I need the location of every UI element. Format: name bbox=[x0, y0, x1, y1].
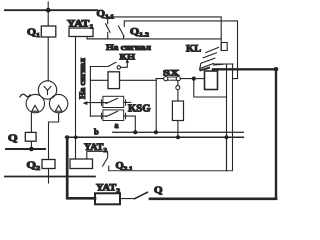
wire feeder above bus bbox=[47, 2, 49, 10]
node on thick line bbox=[274, 67, 279, 72]
arrow to KN label bbox=[126, 59, 130, 63]
KSG upper box bbox=[103, 96, 124, 107]
arrow to signal (left) bbox=[83, 101, 88, 105]
wire right branch down to Q2.1 return bbox=[226, 97, 228, 171]
svg-text:Q: Q bbox=[8, 134, 18, 144]
svg-text:Q2: Q2 bbox=[27, 161, 41, 172]
breaker Q1 bbox=[41, 26, 56, 37]
transformer T (three-winding) bbox=[26, 81, 68, 113]
delta winding symbol left bbox=[32, 105, 39, 111]
KSG upper right stub bbox=[124, 101, 131, 103]
node SX vertical on rail a bbox=[154, 130, 158, 134]
KSG upper contact blade bbox=[106, 98, 118, 103]
svg-text:KSG: KSG bbox=[128, 104, 151, 115]
wire KSG upper contact to signal arrow bbox=[87, 102, 107, 104]
wire thick trip line top bbox=[213, 68, 276, 70]
tilde sign bbox=[20, 94, 30, 97]
wire KL coil loop down-right bbox=[194, 64, 227, 97]
node right branch on rail b bbox=[225, 135, 229, 139]
node YAT1 wire on rail b bbox=[74, 136, 78, 140]
svg-text:Q: Q bbox=[154, 185, 163, 195]
rail a (control bus upper) bbox=[113, 131, 244, 133]
node on LV bus bbox=[29, 147, 34, 152]
KSG lower contact blade bbox=[106, 111, 118, 116]
svg-text:YAT1: YAT1 bbox=[67, 19, 94, 31]
wire Q to LV bus bbox=[30, 141, 32, 149]
contact KN with button bbox=[90, 62, 127, 69]
node KSG drop on rail a bbox=[133, 130, 137, 134]
relay coil KH bbox=[108, 72, 120, 89]
svg-text:YAT2: YAT2 bbox=[84, 142, 107, 154]
wire Q2 down through bus bbox=[48, 169, 50, 184]
wire KH coil right lead to SX vertical bbox=[120, 79, 157, 81]
bus top-left (HV busbar) bbox=[5, 9, 97, 11]
wire KH loop to KSG lower contact bbox=[90, 115, 107, 117]
wire KN left down bbox=[89, 67, 91, 117]
wire Q1.2 bracket to right corner (L2) bbox=[124, 21, 237, 79]
wire thin signal stub bbox=[215, 63, 233, 65]
wire YAT2 top lead to Q2.1 bbox=[87, 151, 108, 159]
wire transformer right winding down with jog bbox=[49, 113, 59, 160]
svg-text:Q1.2: Q1.2 bbox=[130, 27, 149, 39]
wire KH coil left lead bbox=[90, 79, 108, 81]
wire thick trip line right vertical bbox=[275, 69, 277, 199]
wire Q2.1 return line bbox=[109, 170, 233, 172]
svg-text:a: a bbox=[115, 121, 119, 130]
svg-text:Q1: Q1 bbox=[27, 28, 40, 39]
node left end of rail b bbox=[65, 135, 69, 139]
contact Q (bottom) bbox=[135, 192, 148, 198]
wire coil to Q blade bbox=[120, 198, 135, 200]
star winding symbol bbox=[44, 86, 51, 94]
wire thick left trip vertical bbox=[67, 137, 95, 198]
delta winding symbol right bbox=[55, 105, 62, 111]
wire YAT1 left lead down (control minus wire) bbox=[75, 37, 77, 160]
node J1 bbox=[192, 77, 196, 81]
wire transformer left winding down bbox=[30, 112, 32, 132]
wire bus to Q1 bbox=[47, 10, 49, 26]
wire YAT1 right lead to Q1.1 bbox=[87, 37, 108, 39]
wire J1 to KL coil bbox=[194, 78, 205, 80]
wire KSG lower to rail a bbox=[124, 116, 136, 132]
bus LV left bbox=[6, 148, 45, 150]
node junction on top bus bbox=[46, 8, 51, 13]
KSG upper terminal ticks bbox=[102, 100, 126, 105]
bus bottom-left bbox=[5, 176, 95, 178]
KSG lower terminal ticks bbox=[102, 113, 126, 118]
wire SX vertical to bus bbox=[155, 79, 157, 133]
wire Q1 to transformer bbox=[47, 37, 49, 81]
svg-text:На сигнал: На сигнал bbox=[106, 43, 151, 52]
breaker Q2 bbox=[42, 160, 55, 169]
wire thick trip line bottom bbox=[150, 197, 276, 200]
wire signal line under contacts bbox=[87, 38, 221, 40]
svg-text:KL: KL bbox=[186, 45, 201, 55]
svg-text:b: b bbox=[94, 127, 99, 137]
contact KL (multi-finger) bbox=[200, 43, 228, 71]
wire parallel runner bbox=[232, 64, 234, 170]
wire return up to lower bus bbox=[226, 137, 228, 170]
svg-text:На сигнал: На сигнал bbox=[78, 57, 87, 99]
breaker Q bbox=[25, 132, 36, 141]
wire Q1.1 top to right corner (L1) bbox=[108, 17, 222, 51]
svg-text:Q1.1: Q1.1 bbox=[97, 8, 115, 20]
resistor branch with terminal circle bbox=[172, 81, 183, 138]
rail b (control bus lower) bbox=[66, 136, 244, 138]
node resistor branch on rail b bbox=[176, 135, 180, 139]
KSG lower box bbox=[103, 110, 124, 121]
